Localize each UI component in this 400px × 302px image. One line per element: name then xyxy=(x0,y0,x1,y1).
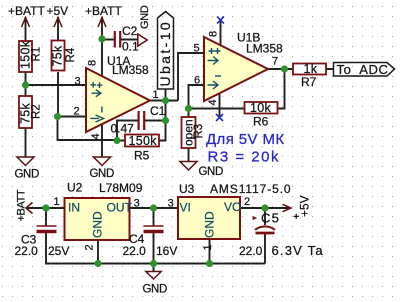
svg-text:R1: R1 xyxy=(31,47,43,62)
svg-text:+5V: +5V xyxy=(297,195,311,217)
svg-text:1k: 1k xyxy=(304,62,318,76)
svg-text:2: 2 xyxy=(244,196,250,208)
svg-text:22.0: 22.0 xyxy=(239,244,263,258)
svg-text:VO: VO xyxy=(224,200,241,214)
svg-text:GND: GND xyxy=(91,211,105,238)
svg-text:GND: GND xyxy=(203,211,217,238)
svg-text:150k: 150k xyxy=(129,134,158,148)
svg-text:1: 1 xyxy=(202,244,214,250)
svg-text:C1: C1 xyxy=(150,104,166,118)
svg-text:C5: C5 xyxy=(261,211,280,226)
svg-text:GND: GND xyxy=(143,284,167,296)
svg-text:VI: VI xyxy=(180,201,191,215)
svg-text:R4: R4 xyxy=(65,47,77,62)
svg-text:+BATT: +BATT xyxy=(85,4,122,18)
svg-text:+BATT: +BATT xyxy=(16,189,28,221)
svg-text:4: 4 xyxy=(207,99,219,105)
svg-text:+5V: +5V xyxy=(47,4,69,18)
svg-text:GND: GND xyxy=(90,168,114,180)
svg-text:U2: U2 xyxy=(67,181,83,195)
svg-text:R3 = 20k: R3 = 20k xyxy=(208,148,280,165)
svg-text:To_ADC: To_ADC xyxy=(337,62,389,77)
svg-text:22.0: 22.0 xyxy=(15,244,39,258)
svg-text:OUT: OUT xyxy=(107,201,133,215)
svg-text:R3: R3 xyxy=(193,124,205,139)
svg-text:AMS1117-5.0: AMS1117-5.0 xyxy=(210,182,292,196)
svg-text:3: 3 xyxy=(134,197,140,209)
svg-text:U3: U3 xyxy=(179,182,195,196)
svg-text:8: 8 xyxy=(87,60,99,66)
svg-text:8: 8 xyxy=(208,31,220,37)
svg-text:2: 2 xyxy=(74,106,80,118)
svg-text:+BATT: +BATT xyxy=(8,4,45,18)
svg-text:LM358: LM358 xyxy=(112,63,149,77)
svg-text:2: 2 xyxy=(84,244,96,250)
svg-text:Ubat-10: Ubat-10 xyxy=(157,20,173,87)
svg-text:C2: C2 xyxy=(122,24,138,38)
svg-text:6: 6 xyxy=(194,75,200,87)
svg-text:IN: IN xyxy=(68,201,80,215)
svg-text:L78M09: L78M09 xyxy=(99,181,143,195)
svg-text:1: 1 xyxy=(153,89,159,101)
svg-text:GND: GND xyxy=(139,5,151,29)
svg-text:22.0: 22.0 xyxy=(123,244,147,258)
svg-text:GND: GND xyxy=(199,166,223,178)
svg-text:R2: R2 xyxy=(31,104,43,119)
svg-text:4: 4 xyxy=(90,133,102,139)
svg-text:3: 3 xyxy=(75,76,81,88)
svg-text:R6: R6 xyxy=(253,115,269,129)
svg-text:16V: 16V xyxy=(156,244,177,258)
svg-text:Для 5V МК: Для 5V МК xyxy=(206,131,285,148)
svg-text:25V: 25V xyxy=(48,244,69,258)
svg-text:10k: 10k xyxy=(250,101,272,115)
svg-text:R7: R7 xyxy=(301,75,317,89)
svg-text:3: 3 xyxy=(168,197,174,209)
svg-text:GND: GND xyxy=(15,169,39,181)
svg-text:6.3V Ta: 6.3V Ta xyxy=(272,243,324,258)
svg-text:LM358: LM358 xyxy=(246,42,283,56)
svg-text:5: 5 xyxy=(194,43,200,55)
svg-text:1: 1 xyxy=(54,196,60,208)
svg-text:0.1: 0.1 xyxy=(122,40,139,54)
svg-text:7: 7 xyxy=(272,56,278,68)
svg-text:75k: 75k xyxy=(51,45,65,67)
svg-text:R5: R5 xyxy=(134,149,150,163)
